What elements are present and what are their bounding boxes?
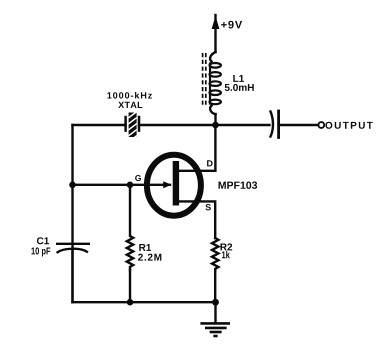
- label S: [205, 204, 210, 210]
- label G: [135, 175, 141, 181]
- wire crystal left to left rail: [73, 124, 126, 126]
- wire source lead: [179, 201, 215, 238]
- crystal XTAL right plate: [138, 117, 141, 131]
- label 1k: [222, 251, 230, 258]
- wire R1 bottom: [129, 270, 131, 302]
- wire capacitor to OUTPUT terminal: [279, 124, 318, 126]
- wire left rail down: [71, 125, 73, 302]
- label 10pF: [31, 247, 50, 256]
- transistor channel bar: [173, 161, 179, 206]
- crystal XTAL body hatched: [128, 111, 138, 143]
- label L1: [233, 75, 244, 82]
- inductor L1 loops: [210, 63, 221, 104]
- ground symbol: [200, 323, 230, 336]
- capacitor output coupling, flat plate: [277, 111, 280, 138]
- label OUTPUT: [325, 122, 372, 129]
- label D: [207, 160, 213, 166]
- wire drain lead: [179, 125, 215, 171]
- node R2/ground junction: [212, 299, 219, 306]
- resistor R1 zigzag: [127, 185, 133, 271]
- label R1: [139, 244, 151, 251]
- wire C1 lower lead: [71, 251, 73, 303]
- node R1/bottom rail junction: [127, 299, 134, 306]
- label 1000-kHz: [107, 92, 152, 99]
- capacitor output coupling, curved plate: [271, 112, 273, 137]
- label XTAL: [118, 102, 142, 108]
- node R1 top junction: [127, 182, 134, 189]
- label R2: [220, 243, 232, 250]
- wire gate: [73, 184, 171, 186]
- label 2.2M: [138, 254, 161, 261]
- label C1: [37, 237, 49, 244]
- wire to ground: [214, 302, 216, 322]
- wire crystal right to node: [139, 124, 216, 126]
- power +9V arrow: [212, 16, 220, 29]
- wire bottom rail: [73, 301, 216, 303]
- capacitor C1 flat plate: [56, 243, 90, 245]
- transistor gate arrow: [163, 181, 171, 188]
- inductor L1 top lead curve: [210, 52, 215, 62]
- label MPF103: [219, 181, 258, 188]
- terminal OUTPUT circle: [318, 122, 324, 128]
- capacitor C1 curved plate: [58, 249, 88, 253]
- inductor L1 bottom lead curve: [210, 106, 215, 115]
- label 5.0mH: [225, 84, 254, 91]
- crystal XTAL left plate: [124, 117, 127, 131]
- transistor Q1 MPF103 circle: [147, 155, 201, 216]
- wire node to output capacitor: [216, 124, 270, 126]
- label +9V: [221, 21, 242, 29]
- resistor R2 zigzag: [212, 238, 218, 271]
- node gate junction on left rail: [69, 182, 76, 189]
- wire R2 bottom: [214, 270, 216, 302]
- inductor L1 core dashed lines: [203, 53, 206, 107]
- wire L1 to node: [214, 114, 216, 125]
- node drain/L1 junction: [212, 122, 219, 129]
- wire +9V lead: [214, 15, 216, 52]
